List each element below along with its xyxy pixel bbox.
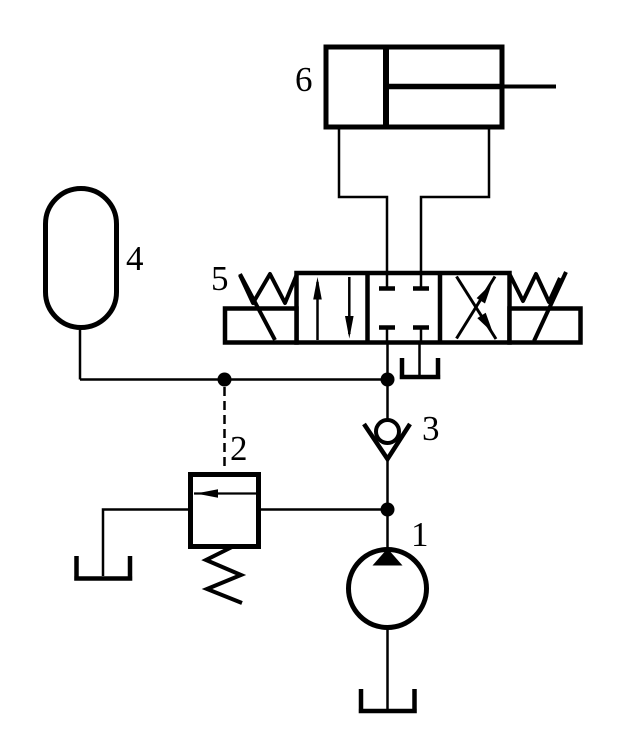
- junction dot left: [218, 373, 232, 387]
- relief valve V2 right port wire: [259, 508, 388, 511]
- wire valve P-port down: [386, 343, 389, 387]
- svg-text:6: 6: [295, 60, 313, 99]
- junction dot pump: [381, 503, 395, 517]
- cylinder U6 rod: [386, 84, 503, 90]
- wire cylinder-left-port to valve port A: [339, 129, 387, 274]
- valve V5 center-cell blocked port bottom-right: [413, 328, 429, 343]
- cylinder U6 rod end: [503, 85, 556, 89]
- cylinder U6 body: [326, 47, 502, 127]
- valve V5 body: [297, 273, 510, 343]
- cylinder U6 piston: [383, 45, 389, 129]
- valve V5 divider right: [438, 273, 443, 343]
- valve V5 right-cell cross arrow down: [457, 277, 497, 340]
- relief valve V2 internal arrow: [194, 489, 256, 497]
- pump P1 circle: [349, 550, 427, 628]
- svg-text:1: 1: [411, 515, 429, 554]
- valve V5 divider left: [365, 273, 370, 343]
- valve V5 right spring: [510, 274, 560, 302]
- valve V5 center-cell blocked port bottom-left: [379, 328, 395, 343]
- valve V5 center-cell blocked port top-left: [379, 273, 395, 289]
- tank pump: [359, 689, 417, 711]
- pump P1 suction wire: [386, 628, 389, 710]
- svg-text:2: 2: [230, 429, 248, 468]
- accumulator A4: [46, 189, 117, 328]
- valve tank T-port line: [418, 343, 421, 376]
- valve V5 center-cell blocked port top-right: [413, 273, 429, 289]
- pump P1 triangle: [373, 549, 403, 566]
- valve V5 left-cell down arrow: [345, 277, 354, 339]
- pilot dashed line: [223, 387, 226, 471]
- wire main horizontal: [80, 378, 388, 381]
- valve V5 left solenoid box: [225, 309, 297, 343]
- wire check valve to pump: [386, 455, 389, 552]
- junction dot P: [381, 373, 395, 387]
- svg-text:4: 4: [126, 239, 144, 278]
- accumulator A4 stem: [79, 328, 82, 380]
- valve V5 left spring: [240, 274, 297, 303]
- relief valve V2 spring: [206, 547, 242, 603]
- valve V5 right-cell cross arrow up: [457, 277, 496, 339]
- tank left: [74, 556, 132, 579]
- relief valve V2 left port wire: [103, 510, 191, 577]
- valve V5 left solenoid diagonal: [240, 274, 275, 340]
- check valve V3 ball: [376, 420, 399, 443]
- check valve V3 inlet wire: [386, 380, 389, 421]
- valve V5 right solenoid box: [510, 309, 581, 343]
- check valve V3 seat: [364, 424, 410, 459]
- relief valve V2 box: [191, 475, 259, 547]
- svg-text:3: 3: [422, 409, 440, 448]
- valve tank symbol: [400, 358, 441, 377]
- valve V5 left-cell up arrow: [313, 277, 322, 340]
- valve V5 right solenoid diagonal: [534, 272, 566, 341]
- svg-text:5: 5: [211, 259, 229, 298]
- wire cylinder-right-port to valve port B: [421, 129, 489, 274]
